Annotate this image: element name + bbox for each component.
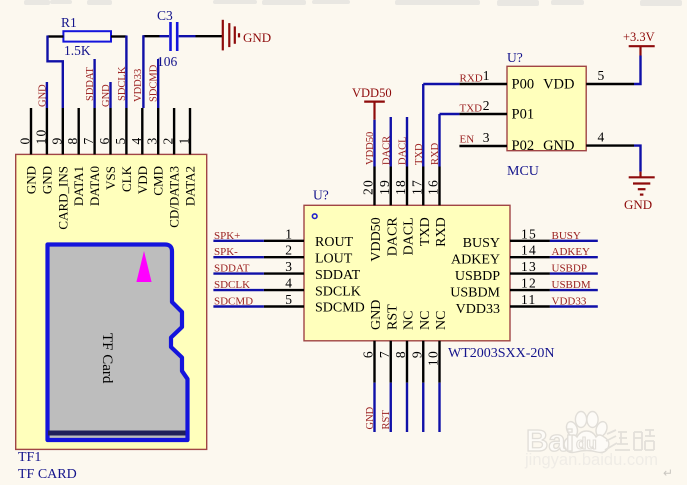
power VDD50 symbol (364, 102, 385, 120)
svg-text:VSS: VSS (103, 166, 118, 190)
U? pin 19 (DACR) (390, 167, 392, 206)
wire TXD vertical (U? pin 17 to MCU RXD) (422, 84, 424, 167)
svg-text:15: 15 (521, 226, 537, 241)
wire C3 left plate (160, 35, 170, 37)
wire DACR stub pin 19 (390, 117, 392, 167)
wire U? pin 8 bottom (406, 383, 408, 432)
svg-text:VDD33: VDD33 (456, 302, 500, 317)
MCU pin 3 (EN stub) (459, 145, 507, 147)
wire R1 to TF1 pin 5 (SDCLK net) (125, 36, 127, 109)
connector TF1 body (16, 154, 207, 449)
svg-text:SDCMD: SDCMD (214, 296, 253, 308)
svg-text:U?: U? (313, 188, 329, 203)
MCU pin 5 (586, 83, 634, 85)
TF card bottom stripe (48, 431, 186, 436)
svg-text:16: 16 (426, 179, 441, 195)
svg-text:NC: NC (402, 311, 417, 330)
svg-text:jingyan.baidu.com: jingyan.baidu.com (524, 451, 658, 469)
svg-text:1: 1 (483, 68, 490, 83)
svg-text:EN: EN (460, 134, 475, 146)
svg-text:P00: P00 (512, 77, 535, 93)
U? pin 9 (NC) (422, 341, 424, 383)
svg-text:GND: GND (24, 166, 39, 194)
svg-text:BUSY: BUSY (463, 236, 500, 251)
U? pin 12 (USBDM) (510, 289, 550, 291)
U? pin 6 (GND) (373, 341, 375, 383)
svg-text:10: 10 (33, 128, 48, 144)
wire SPK+ net (213, 240, 264, 242)
svg-text:U?: U? (507, 50, 523, 65)
svg-text:12: 12 (521, 276, 537, 291)
svg-text:9: 9 (49, 136, 64, 144)
svg-text:11: 11 (521, 292, 537, 307)
svg-text:WT2003SXX-20N: WT2003SXX-20N (448, 346, 555, 361)
op-amp U? WT2003SXX-20N body (304, 205, 510, 340)
MCU U? body (507, 66, 586, 150)
svg-text:7: 7 (377, 350, 392, 358)
U? pin 11 (VDD33) (510, 305, 550, 307)
svg-text:TF Card: TF Card (99, 333, 115, 384)
svg-text:RST: RST (385, 304, 400, 330)
TF1 pin 2 (CD/DATA3) (173, 108, 175, 154)
wire SDDAT net (213, 272, 264, 274)
svg-text:ADKEY: ADKEY (552, 246, 591, 258)
svg-text:RXD: RXD (434, 217, 449, 247)
svg-text:GND: GND (101, 84, 112, 107)
svg-text:13: 13 (521, 259, 537, 274)
TF1 pin 0 (GND) (30, 108, 32, 154)
svg-text:GND: GND (365, 406, 376, 429)
svg-text:+3.3V: +3.3V (623, 30, 655, 44)
wire GND stub TF1 pin 6 (109, 82, 111, 108)
wire SDDAT to TF1 pin 7 (93, 59, 95, 108)
wire R1 to TF1 pin 9 (48, 36, 63, 109)
svg-text:USBDP: USBDP (455, 269, 500, 284)
svg-text:4: 4 (285, 276, 292, 291)
svg-text:SPK-: SPK- (214, 246, 238, 258)
wire C3 to ground (196, 35, 223, 37)
svg-text:P02: P02 (512, 138, 535, 154)
svg-text:BUSY: BUSY (552, 230, 581, 242)
svg-text:20: 20 (361, 179, 376, 195)
wire BUSY net (550, 240, 598, 242)
wire MCU pin 4 to ground (634, 146, 641, 172)
svg-text:4: 4 (129, 136, 144, 144)
U? pin 13 (USBDP) (510, 272, 550, 274)
wire U? pin 7 bottom (390, 383, 392, 432)
U? pin 1 (ROUT) (264, 240, 304, 242)
svg-text:6: 6 (361, 350, 376, 358)
svg-text:R1: R1 (61, 15, 77, 30)
TF card drawing (48, 245, 188, 441)
svg-text:CMD: CMD (151, 166, 166, 196)
U? pin 7 (RST) (390, 341, 392, 383)
wire MCU pin 5 to +3.3V (634, 56, 641, 85)
svg-text:NC: NC (434, 311, 449, 330)
wire U? pin 9 bottom (422, 383, 424, 432)
wire RXD vertical (U? pin 16 to MCU TXD) (438, 114, 440, 167)
wire R1 left lead (48, 35, 64, 37)
svg-text:DATA2: DATA2 (183, 166, 198, 206)
svg-text:VDD: VDD (543, 77, 574, 93)
svg-text:DACR: DACR (385, 217, 400, 257)
wire C3 right plate (179, 35, 196, 37)
svg-text:4: 4 (598, 130, 605, 145)
wire ADKEY net (550, 256, 598, 258)
svg-text:VDD50: VDD50 (352, 86, 392, 100)
svg-text:VDD50: VDD50 (369, 217, 384, 261)
U? pin 3 (SDDAT) (264, 272, 304, 274)
svg-text:CARD_INS: CARD_INS (55, 166, 70, 230)
U? pin 16 (RXD) (438, 167, 440, 206)
wire C3 left lead (143, 35, 159, 37)
wire USBDP net (550, 272, 598, 274)
svg-text:DACL: DACL (402, 217, 417, 255)
U? pin 14 (ADKEY) (510, 256, 550, 258)
svg-text:SDCMD: SDCMD (315, 301, 365, 316)
svg-text:9: 9 (409, 350, 424, 358)
svg-text:SDDAT: SDDAT (85, 67, 96, 101)
wire R1 right lead (111, 35, 126, 37)
svg-text:TF1: TF1 (18, 450, 41, 465)
wire GND stub TF1 pin 10 (46, 82, 48, 108)
svg-text:5: 5 (285, 292, 292, 307)
U? pin 20 (VDD50) (373, 167, 375, 206)
TF1 pin 5 (CLK) (125, 108, 127, 154)
svg-text:1: 1 (177, 136, 192, 144)
svg-text:6: 6 (97, 136, 112, 144)
svg-text:2: 2 (161, 136, 176, 144)
svg-text:1: 1 (285, 226, 292, 241)
svg-text:SDDAT: SDDAT (315, 268, 361, 283)
TF1 pin 3 (CMD) (157, 108, 159, 154)
svg-text:SDCLK: SDCLK (117, 66, 128, 101)
svg-text:8: 8 (393, 350, 408, 358)
wire VDD33 net (550, 305, 598, 307)
svg-text:CD/DATA3: CD/DATA3 (167, 166, 182, 228)
svg-text:DATA1: DATA1 (71, 166, 86, 206)
svg-text:SPK+: SPK+ (214, 230, 240, 242)
svg-text:7: 7 (81, 136, 96, 144)
svg-text:3: 3 (483, 130, 490, 145)
svg-text:P01: P01 (512, 107, 535, 123)
svg-text:↵: ↵ (663, 466, 673, 480)
svg-text:2: 2 (483, 98, 490, 113)
svg-text:SDCLK: SDCLK (315, 284, 361, 299)
U? pin-1 dot marker (312, 214, 317, 219)
svg-text:0: 0 (18, 136, 33, 144)
svg-text:5: 5 (598, 68, 605, 83)
svg-text:17: 17 (409, 179, 424, 195)
U? pin 8 (NC) (406, 341, 408, 383)
svg-text:2: 2 (285, 243, 292, 258)
svg-text:VDD: VDD (135, 166, 150, 194)
svg-text:USBDM: USBDM (552, 279, 591, 291)
svg-text:MCU: MCU (507, 164, 539, 179)
svg-text:GND: GND (624, 197, 652, 212)
svg-text:GND: GND (243, 30, 271, 45)
svg-text:VDD33: VDD33 (552, 296, 587, 308)
svg-text:LOUT: LOUT (315, 251, 353, 266)
svg-text:USBDP: USBDP (552, 263, 587, 275)
wire USBDM net (550, 289, 598, 291)
svg-text:14: 14 (521, 243, 537, 258)
svg-text:NC: NC (418, 311, 433, 330)
TF1 pin 4 (VDD) (141, 108, 143, 154)
U? pin 5 (SDCMD) (264, 305, 304, 307)
svg-text:19: 19 (377, 179, 392, 195)
svg-text:ADKEY: ADKEY (451, 253, 500, 268)
wire SDCMD net (213, 305, 264, 307)
svg-text:TF CARD: TF CARD (18, 467, 77, 482)
wire TXD net to MCU pin 2 (440, 113, 460, 115)
svg-text:GND: GND (39, 166, 54, 194)
wire SDCMD to TF1 pin 3 (157, 59, 159, 108)
svg-text:ROUT: ROUT (315, 235, 354, 250)
wire SPK- net (213, 256, 264, 258)
svg-text:TXD: TXD (418, 217, 433, 246)
svg-text:CLK: CLK (119, 165, 134, 192)
wire VDD50 to U? pin 20 (373, 120, 375, 167)
U? pin 10 (NC) (438, 341, 440, 383)
wire C3 to TF1 pin 4 (VDD33 net) (142, 35, 144, 108)
power +3.3V symbol (629, 46, 655, 55)
svg-text:1.5K: 1.5K (64, 43, 91, 58)
U? pin 15 (BUSY) (510, 240, 550, 242)
svg-text:GND: GND (37, 84, 48, 107)
svg-text:GND: GND (369, 300, 384, 330)
TF card arrow triangle (136, 251, 151, 282)
svg-text:GND: GND (543, 138, 574, 154)
MCU pin 2 (459, 113, 507, 115)
svg-text:DATA0: DATA0 (87, 166, 102, 206)
MCU pin 4 (586, 144, 634, 146)
svg-text:18: 18 (393, 179, 408, 195)
TF1 pin 6 (VSS) (109, 108, 111, 154)
svg-text:3: 3 (145, 136, 160, 144)
TF1 pin 7 (DATA0) (93, 108, 95, 154)
svg-text:SDCMD: SDCMD (149, 64, 160, 102)
U? pin 18 (DACL) (406, 167, 408, 206)
svg-text:RXD: RXD (460, 73, 483, 85)
U? pin 17 (TXD) (422, 167, 424, 206)
wire U? pin 10 bottom (438, 383, 440, 432)
wire RXD net to MCU pin 1 (423, 83, 459, 85)
wire DACL stub pin 18 (406, 117, 408, 167)
svg-text:VDD33: VDD33 (133, 69, 144, 102)
svg-text:USBDM: USBDM (450, 285, 500, 300)
svg-text:C3: C3 (157, 8, 173, 23)
svg-text:SDCLK: SDCLK (214, 279, 250, 291)
wire SDCLK net (213, 289, 264, 291)
wire U? pin 6 bottom (373, 383, 375, 432)
TF1 pin 1 (DATA2) (189, 108, 191, 154)
svg-text:106: 106 (157, 54, 178, 69)
ground (below MCU) (629, 172, 655, 195)
ground (right of C3, rotated) (223, 20, 239, 51)
svg-text:SDDAT: SDDAT (214, 263, 250, 275)
resistor R1 (63, 31, 111, 41)
MCU pin 1 (459, 83, 507, 85)
TF1 pin 10 (GND) (46, 108, 48, 154)
svg-text:10: 10 (426, 350, 441, 366)
TF1 pin 8 (DATA1) (77, 108, 79, 154)
svg-text:5: 5 (113, 136, 128, 144)
svg-text:8: 8 (65, 136, 80, 144)
svg-text:TXD: TXD (460, 103, 483, 115)
capacitor C3 (171, 22, 178, 51)
svg-text:3: 3 (285, 259, 292, 274)
svg-text:RST: RST (381, 410, 392, 430)
U? pin 2 (LOUT) (264, 256, 304, 258)
U? pin 4 (SDCLK) (264, 289, 304, 291)
TF1 pin 9 (CARD_INS) (62, 108, 64, 154)
